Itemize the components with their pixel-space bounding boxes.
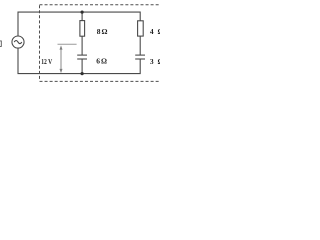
svg-text:Ω: Ω [158, 27, 161, 36]
svg-text:6 Ω: 6 Ω [96, 57, 107, 66]
svg-text:12 V: 12 V [41, 58, 52, 66]
svg-text:8 Ω: 8 Ω [97, 27, 108, 36]
svg-text:Ω: Ω [158, 57, 161, 66]
svg-text:4: 4 [150, 27, 154, 36]
svg-text:3: 3 [150, 57, 154, 66]
